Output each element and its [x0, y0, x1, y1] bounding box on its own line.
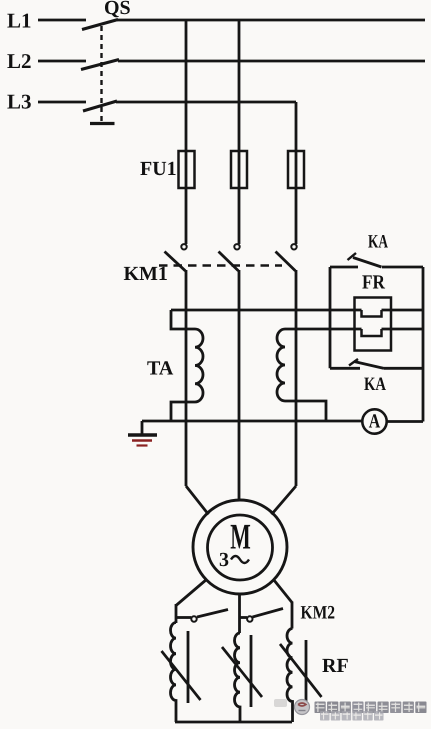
- wire L3 right segment: [116, 101, 296, 104]
- transformer TA1 secondary winding: [171, 310, 203, 421]
- wire secondary common bus: [142, 420, 362, 423]
- svg-text:KM2: KM2: [301, 603, 336, 624]
- thermal relay FR heater element 1: [362, 310, 382, 317]
- rheostat RF slash 1: [162, 651, 201, 700]
- contactor KM1 pole 2 contact circle: [234, 244, 239, 249]
- svg-text:RF: RF: [322, 655, 349, 677]
- svg-text:L2: L2: [7, 49, 32, 73]
- thermal relay FR box: [355, 298, 392, 351]
- contactor KM1 pole 1 contact circle: [181, 244, 186, 249]
- motor M outer circle: [193, 500, 287, 594]
- fuse FU1-2: [231, 151, 247, 188]
- wire motor to rotor branch 2: [238, 594, 241, 633]
- fuse FU1-3: [288, 151, 304, 188]
- switch QS linkage dashed line: [100, 26, 102, 122]
- rheostat RF core 1: [187, 631, 190, 703]
- svg-text:QS: QS: [104, 0, 131, 19]
- contactor KM1 pole 2 blade: [219, 252, 239, 271]
- watermark text row 1: [315, 702, 427, 714]
- svg-text:L1: L1: [7, 9, 32, 33]
- contactor KM1 pole 3 contact circle: [291, 244, 296, 249]
- svg-text:KA: KA: [368, 232, 388, 253]
- transformer TA2 secondary winding: [277, 329, 326, 421]
- wire phase 1 diagonal into motor: [186, 486, 209, 515]
- rheostat RF winding 3: [287, 629, 293, 723]
- contactor KM2 contact 1 blade: [197, 610, 228, 618]
- wire L3 left segment: [38, 101, 86, 104]
- ammeter A circle: [362, 409, 386, 433]
- ground bar 1: [128, 433, 157, 437]
- wire L1 left segment: [38, 19, 86, 22]
- svg-text:KA: KA: [364, 374, 386, 395]
- contactor KM2 contact 2 wire: [239, 616, 247, 619]
- relay contact KA (top) tick: [348, 253, 357, 260]
- svg-text:FU1: FU1: [140, 158, 177, 180]
- relay contact KA (bottom) blade: [354, 362, 384, 369]
- wire rotor star-point bus: [175, 721, 292, 724]
- switch QS pole 2 blade: [81, 60, 119, 70]
- rheostat RF core 3: [305, 640, 308, 705]
- wire phase 1 to motor: [185, 270, 188, 486]
- wire right vertical: [422, 267, 425, 422]
- watermark logo circle: [295, 700, 310, 715]
- contactor KM2 contact 1 circle: [191, 616, 196, 621]
- motor M inner circle: [208, 515, 273, 580]
- svg-text:TA: TA: [147, 358, 174, 380]
- rheostat RF slash 2: [222, 647, 262, 697]
- relay contact KA (top) wire: [330, 266, 423, 269]
- contactor KM1 pole 1 blade: [165, 252, 186, 271]
- wire B (TA2 secondary to FR): [285, 328, 423, 331]
- wire rotor branch 1 vertical: [175, 604, 178, 623]
- wire rotor branch 3 vertical: [291, 602, 294, 629]
- wire phase 3 drop: [295, 102, 298, 244]
- thermal relay FR heater element 2: [362, 329, 382, 336]
- wire L2 left segment: [38, 60, 86, 63]
- watermark left faint blob: [274, 699, 287, 707]
- wire ammeter to right vertical: [387, 420, 423, 423]
- relay contact KA (bottom) wire: [330, 367, 423, 370]
- svg-text:M: M: [230, 517, 251, 557]
- wire KA branch left vertical: [329, 267, 332, 368]
- fuse FU1-1: [179, 151, 195, 188]
- svg-text:A: A: [369, 411, 381, 433]
- contactor KM1 linkage dashed line: [159, 264, 282, 266]
- rheostat RF slash 3: [280, 644, 322, 697]
- svg-text:FR: FR: [362, 272, 385, 294]
- wire phase 3 to motor: [295, 270, 298, 486]
- wire motor to rotor branch 3 diagonal: [274, 580, 293, 603]
- switch QS pole 1 blade: [82, 20, 118, 30]
- rheostat RF winding 1: [171, 623, 177, 723]
- rheostat RF winding 2: [235, 633, 241, 722]
- wire L1 right segment: [117, 19, 425, 22]
- contactor KM1 pole 3 blade: [276, 252, 296, 271]
- ground bar 2: [132, 439, 152, 442]
- wire phase 2 to motor: [238, 270, 241, 500]
- wire motor to rotor branch 1 diagonal: [176, 580, 207, 606]
- svg-text:KM1: KM1: [124, 263, 168, 285]
- contactor KM2 contact 1 wire: [176, 616, 191, 619]
- ground lead: [141, 421, 144, 434]
- ground bar 3: [137, 444, 148, 446]
- wire phase 3 diagonal into motor: [272, 486, 297, 515]
- svg-text:L3: L3: [7, 90, 32, 114]
- svg-text:3: 3: [219, 549, 229, 571]
- rheostat RF core 2: [250, 635, 253, 707]
- contactor KM2 contact 2 blade: [253, 609, 284, 618]
- wire L2 right segment: [118, 60, 425, 63]
- relay contact KA (top) blade: [353, 258, 382, 268]
- switch QS linkage bar: [90, 122, 115, 125]
- contactor KM2 contact 2 circle: [247, 616, 252, 621]
- wire phase 1 drop: [185, 20, 188, 244]
- switch QS pole 3 blade: [83, 101, 117, 111]
- relay contact KA (bottom) tick: [349, 359, 358, 366]
- watermark text row 2: [320, 711, 384, 721]
- wire A (TA1 secondary to FR): [171, 309, 423, 312]
- wire phase 2 drop: [238, 20, 241, 244]
